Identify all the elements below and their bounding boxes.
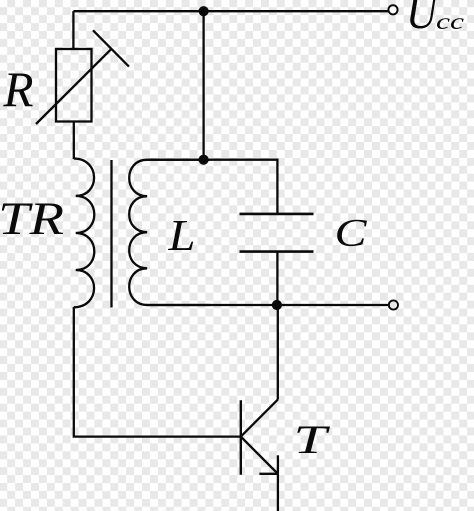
node junction dot bottom rail bbox=[272, 300, 282, 310]
transformer TR primary winding bbox=[74, 159, 95, 308]
resistor R adjust diagonal bbox=[36, 49, 111, 124]
capacitor C top plate bbox=[240, 213, 314, 216]
svg-text:cc: cc bbox=[436, 9, 464, 34]
resistor R body bbox=[56, 49, 92, 122]
transistor T collector diagonal bbox=[241, 400, 278, 437]
svg-text:U: U bbox=[406, 0, 440, 39]
svg-text:L: L bbox=[167, 211, 195, 260]
wire emitter down to edge bbox=[277, 474, 279, 511]
inductor L secondary winding bbox=[129, 160, 210, 305]
wire top rail bbox=[73, 10, 388, 12]
svg-text:R: R bbox=[3, 61, 34, 117]
transistor T emitter arrow barb horizontal bbox=[259, 473, 278, 475]
wire collector vertical bbox=[277, 305, 279, 400]
capacitor C bottom plate bbox=[240, 250, 314, 253]
resistor R adjust T-bar bbox=[93, 30, 129, 66]
terminal output open circle bbox=[389, 300, 398, 309]
wire resistor to transformer bbox=[73, 122, 75, 160]
svg-text:T: T bbox=[294, 417, 331, 462]
transformer TR core bbox=[110, 160, 112, 308]
wire capacitor bottom to rail bbox=[276, 252, 278, 305]
wire left vertical to resistor bbox=[72, 11, 74, 49]
wire bottom rail bbox=[146, 304, 389, 306]
node junction dot top rail bbox=[199, 6, 209, 16]
transistor T base bar bbox=[240, 400, 242, 475]
svg-text:C: C bbox=[335, 212, 368, 255]
wire vertical link top rail to L top bbox=[202, 11, 204, 160]
wire L top to capacitor top bbox=[146, 160, 277, 214]
node junction dot L top bbox=[199, 155, 209, 165]
svg-text:TR: TR bbox=[0, 193, 64, 245]
wire base: left vertical and horizontal to bar bbox=[74, 307, 241, 437]
terminal Ucc open circle bbox=[388, 5, 397, 14]
transistor T emitter arrow barb vertical bbox=[277, 455, 279, 474]
transistor T emitter diagonal bbox=[241, 437, 278, 474]
